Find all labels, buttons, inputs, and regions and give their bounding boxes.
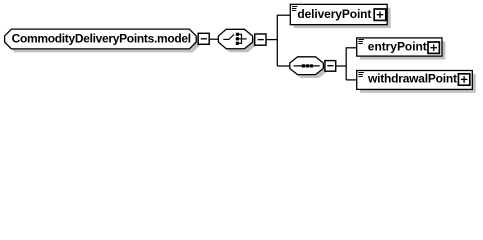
svg-text:withdrawalPoint: withdrawalPoint [367, 71, 457, 85]
svg-text:deliveryPoint: deliveryPoint [297, 7, 371, 21]
svg-text:entryPoint: entryPoint [368, 39, 427, 53]
svg-text:CommodityDeliveryPoints.model: CommodityDeliveryPoints.model [12, 31, 192, 45]
